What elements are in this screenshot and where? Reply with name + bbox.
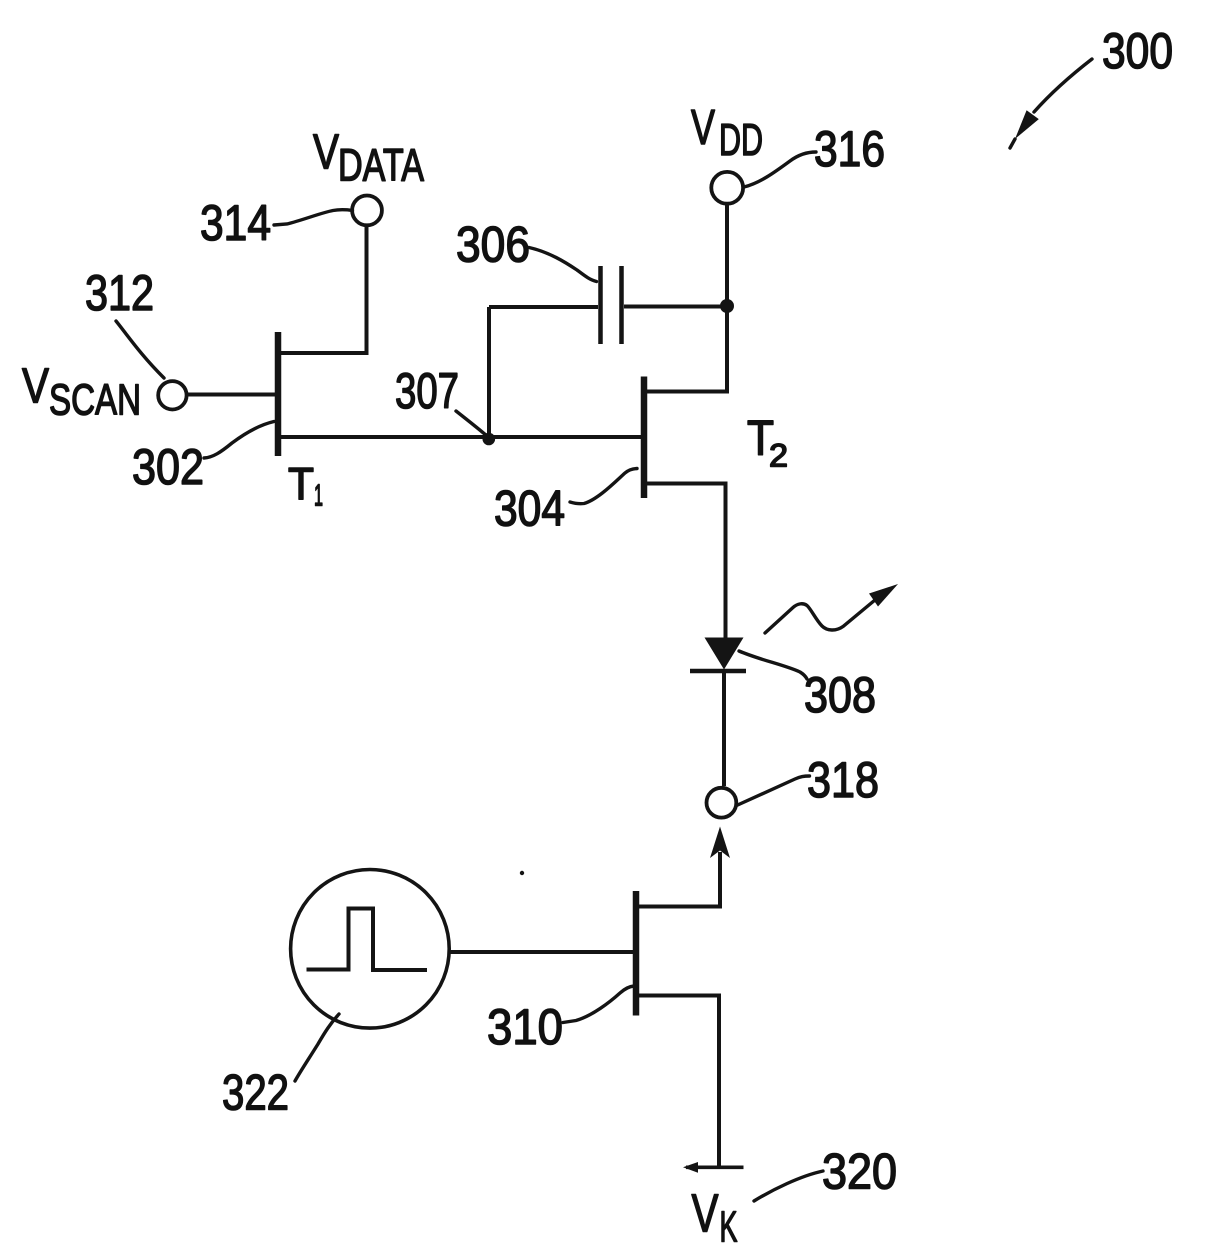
svg-text:314: 314 bbox=[200, 195, 271, 251]
svg-text:308: 308 bbox=[804, 667, 876, 723]
svg-text:DD: DD bbox=[719, 116, 763, 165]
svg-text:V: V bbox=[313, 126, 339, 180]
svg-text:1: 1 bbox=[314, 478, 323, 513]
svg-text:322: 322 bbox=[222, 1065, 289, 1121]
svg-text:V: V bbox=[692, 1184, 719, 1244]
svg-text:T: T bbox=[288, 459, 314, 510]
svg-text:306: 306 bbox=[456, 217, 530, 273]
svg-text:312: 312 bbox=[85, 265, 154, 321]
svg-text:K: K bbox=[720, 1203, 738, 1252]
svg-text:V: V bbox=[691, 101, 715, 155]
svg-text:316: 316 bbox=[814, 121, 885, 177]
svg-text:302: 302 bbox=[132, 439, 204, 495]
svg-text:318: 318 bbox=[807, 752, 879, 808]
svg-text:DATA: DATA bbox=[338, 140, 424, 191]
svg-text:V: V bbox=[22, 360, 49, 414]
svg-text:300: 300 bbox=[1102, 23, 1173, 79]
svg-text:SCAN: SCAN bbox=[49, 376, 141, 425]
svg-text:320: 320 bbox=[822, 1144, 897, 1200]
svg-text:310: 310 bbox=[487, 999, 563, 1055]
svg-text:304: 304 bbox=[494, 481, 565, 537]
svg-text:307: 307 bbox=[395, 363, 459, 419]
svg-text:2: 2 bbox=[769, 438, 788, 474]
